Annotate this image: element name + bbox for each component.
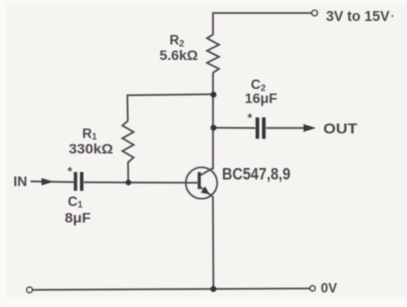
transistor Q1 body [186, 167, 217, 198]
wire collector stem [212, 73, 214, 170]
signal arrow input [42, 178, 54, 185]
capacitor C2 plate left [256, 117, 260, 138]
terminal ground left [27, 287, 33, 293]
wire base segment [84, 181, 198, 184]
transistor Q1 emitter arrow [201, 186, 210, 194]
wire top supply rail [213, 12, 312, 14]
terminal supply [312, 10, 318, 16]
svg-text:*: * [68, 165, 73, 179]
junction node out [211, 125, 217, 131]
svg-text:BC547,8,9: BC547,8,9 [222, 165, 291, 184]
resistor R1 [122, 121, 133, 163]
svg-text:OUT: OUT [323, 120, 357, 137]
transistor Q1 base bar [198, 172, 201, 189]
transistor Q1 collector lead [199, 168, 213, 176]
wire input segment [31, 180, 74, 183]
resistor R2 [207, 35, 219, 73]
svg-text:0V: 0V [321, 281, 337, 296]
svg-text:IN: IN [13, 174, 27, 189]
wire R2 top stem [212, 12, 214, 35]
wire emitter to ground rail [212, 197, 215, 290]
svg-text:16μF: 16μF [245, 91, 277, 106]
wire R1 bottom [127, 162, 129, 183]
wire out branch right [266, 127, 306, 129]
svg-text:8μF: 8μF [65, 210, 91, 225]
capacitor C1 plate left [74, 172, 77, 191]
svg-text:*: * [248, 111, 253, 125]
wire bias feed to R1 [127, 94, 213, 121]
signal arrow output [304, 124, 317, 132]
junction node R1 feed [211, 92, 217, 98]
capacitor C2 plate right [262, 117, 266, 138]
terminal ground right [310, 286, 315, 291]
capacitor C1 plate right [80, 172, 83, 191]
transistor Q1 emitter lead [199, 186, 212, 197]
wire bottom ground rail [32, 289, 311, 290]
svg-text:5.6kΩ: 5.6kΩ [160, 48, 199, 63]
svg-text:3V to 15V: 3V to 15V [326, 8, 390, 25]
svg-text:330kΩ: 330kΩ [69, 141, 113, 156]
wire out branch left [214, 127, 256, 129]
speck after supply label [392, 15, 394, 17]
junction node base [125, 180, 131, 186]
junction node emitter rail [210, 286, 216, 292]
